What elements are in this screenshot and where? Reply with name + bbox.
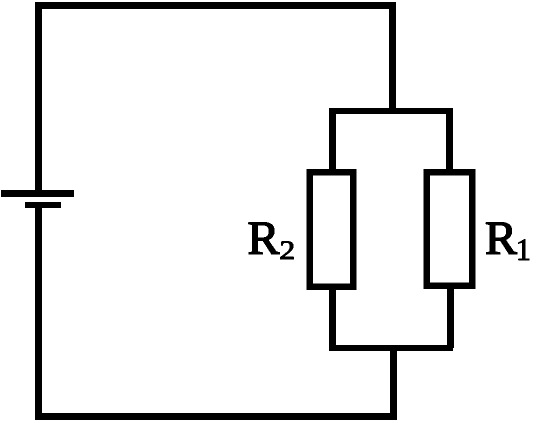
- resistor R1: [424, 169, 476, 289]
- label R2: [249, 223, 294, 260]
- wire bus to R1 top: [446, 108, 453, 172]
- wire top bus of parallel pair: [329, 108, 453, 114]
- wire bus to R2 top: [329, 108, 336, 172]
- label R1: [486, 223, 529, 260]
- wire right stem bottom: [390, 345, 397, 420]
- wire left vertical lower: [35, 204, 42, 420]
- wire bottom horizontal: [35, 413, 397, 420]
- battery V1 positive plate: [1, 190, 74, 197]
- wire top horizontal: [35, 2, 393, 9]
- battery V1 negative plate: [25, 202, 61, 208]
- wire left vertical upper: [35, 2, 42, 193]
- wire R1 bottom to bus: [447, 286, 454, 348]
- wire bottom bus of parallel pair: [329, 345, 453, 351]
- resistor R2: [307, 169, 357, 290]
- wire R2 bottom to bus: [329, 286, 336, 348]
- wire right stem top: [389, 2, 396, 112]
